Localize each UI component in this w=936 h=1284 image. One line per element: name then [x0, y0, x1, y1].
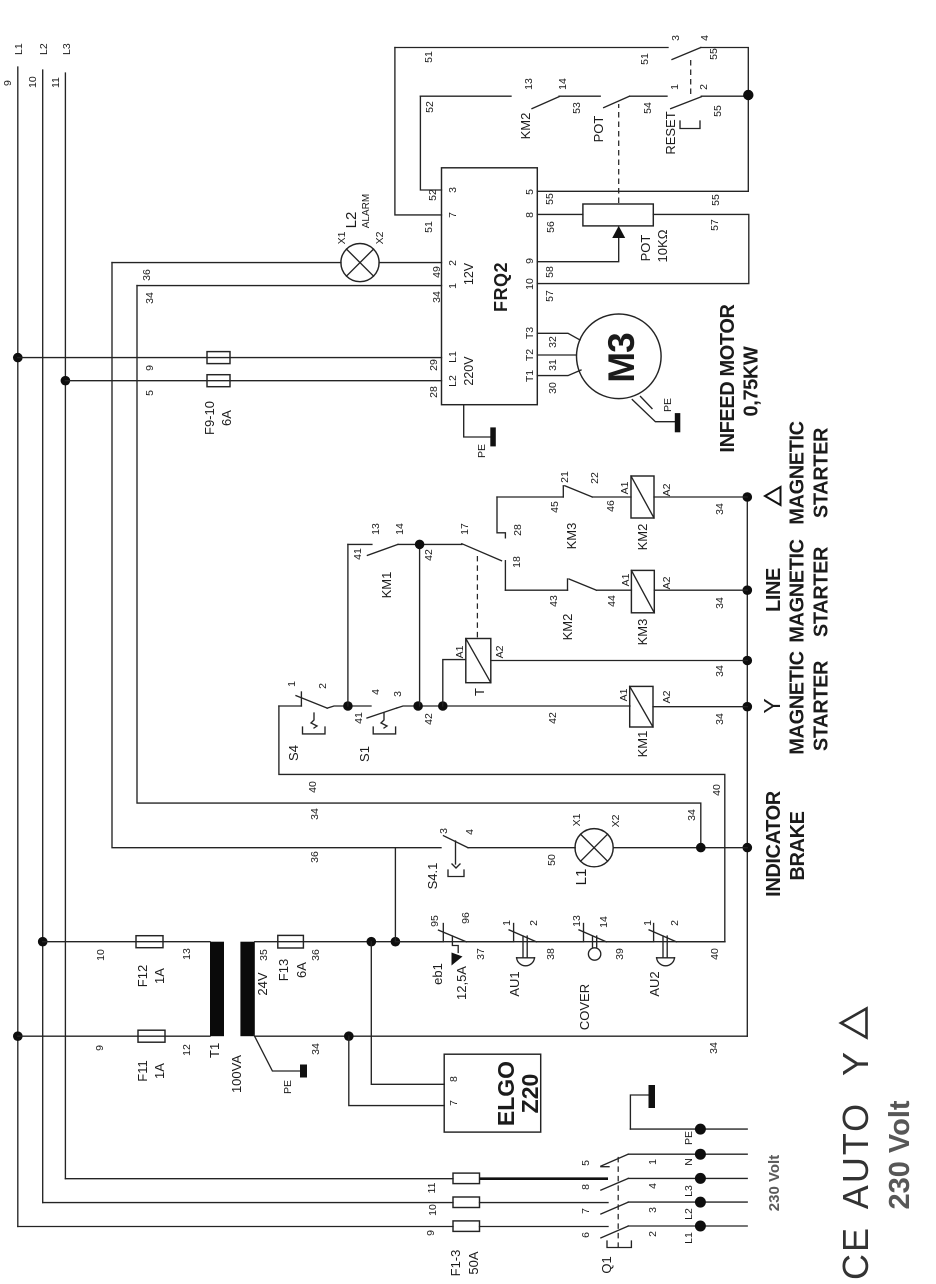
dashed link T coil to contact [476, 556, 478, 637]
svg-text:39: 39 [614, 948, 626, 960]
breaker Q1 pole L1 blade [601, 1226, 628, 1238]
motor M3 [577, 314, 662, 399]
svg-text:58: 58 [544, 266, 556, 278]
Q1 mechanical link (dashed) [617, 1155, 619, 1248]
svg-text:M3: M3 [601, 333, 642, 383]
svg-text:T: T [472, 688, 487, 696]
svg-text:30: 30 [547, 382, 559, 394]
svg-text:13: 13 [571, 915, 583, 927]
junction dot: L2 rail to F12 [38, 937, 48, 947]
svg-text:96: 96 [460, 912, 472, 924]
svg-text:8: 8 [524, 212, 536, 218]
branch 42 to T coil [443, 660, 466, 706]
svg-text:18: 18 [511, 556, 523, 568]
svg-text:KM3: KM3 [564, 523, 579, 550]
S1 actuator [381, 713, 387, 728]
svg-text:BRAKE: BRAKE [787, 811, 809, 880]
svg-text:T3: T3 [524, 327, 536, 339]
svg-text:MAGNETIC: MAGNETIC [787, 651, 809, 754]
svg-text:1: 1 [447, 283, 459, 289]
aux contact KM2 (3-4) [670, 35, 711, 60]
wire 10 drop to F12 [43, 941, 210, 943]
wire 40 return loop [279, 706, 725, 942]
fuse F11 [138, 1030, 165, 1042]
pushbutton AU1 (1-2) [501, 920, 557, 997]
svg-text:56: 56 [545, 221, 557, 233]
PE earth branch [630, 1095, 649, 1129]
svg-text:STARTER: STARTER [811, 546, 833, 637]
svg-text:A1: A1 [618, 688, 630, 701]
junction dot rail/KM2 rung [743, 492, 753, 502]
fuse F10 [207, 375, 230, 387]
wire L3 drop to Q1 [65, 1178, 453, 1180]
svg-text:POT: POT [638, 235, 653, 262]
svg-text:34: 34 [686, 809, 698, 821]
earth bar (FRQ2) [490, 427, 496, 446]
svg-text:A2: A2 [661, 483, 673, 496]
Q1 handle [607, 1241, 631, 1248]
svg-text:F11: F11 [135, 1060, 150, 1081]
RESET latch bracket [680, 121, 700, 129]
svg-text:0,75KW: 0,75KW [741, 346, 763, 416]
svg-text:COVER: COVER [577, 984, 592, 1030]
coil KM2 [619, 476, 673, 550]
svg-text:9: 9 [2, 80, 14, 86]
wire to ELGO pin 8 [371, 942, 444, 1085]
svg-text:ALARM: ALARM [361, 194, 372, 228]
svg-text:KM1: KM1 [635, 731, 650, 758]
wire 39 [606, 941, 653, 943]
svg-text:T2: T2 [524, 349, 536, 361]
svg-text:L2: L2 [343, 212, 360, 229]
svg-text:A1: A1 [454, 645, 466, 658]
transformer T1 primary bar [210, 942, 224, 1036]
svg-text:F1-3: F1-3 [448, 1250, 463, 1277]
wire KM2 coil to rail [654, 496, 747, 498]
svg-text:52: 52 [424, 101, 436, 113]
ELGO Z20 box [444, 1054, 541, 1132]
svg-text:34: 34 [144, 292, 156, 304]
svg-text:1A: 1A [152, 1063, 167, 1079]
svg-text:46: 46 [605, 500, 617, 512]
junction dot 42/KM1aux [415, 540, 425, 550]
wire PE terminal [630, 1128, 747, 1130]
svg-text:12: 12 [181, 1044, 193, 1056]
terminal dot N [695, 1149, 706, 1160]
svg-text:36: 36 [141, 269, 153, 281]
wire 46 [592, 496, 631, 498]
svg-text:55: 55 [712, 105, 724, 117]
wire 51 right side [395, 47, 668, 49]
wire Q1 out N [628, 1153, 747, 1155]
svg-text:31: 31 [547, 359, 559, 371]
svg-text:A2: A2 [494, 645, 506, 658]
switch COVER (13-14) [571, 915, 626, 1030]
svg-text:41: 41 [352, 548, 364, 560]
breaker Q1 pole L2 blade [601, 1202, 628, 1214]
svg-text:KM2: KM2 [560, 614, 575, 641]
svg-text:ELGO: ELGO [493, 1061, 519, 1126]
overload contact eb1 (95-96) [395, 912, 487, 1000]
svg-text:6A: 6A [219, 410, 234, 426]
aux contact KM2 (13-14) [518, 78, 569, 139]
svg-text:L1: L1 [683, 1232, 695, 1244]
wire 9 to FRQ2 L1 [18, 357, 442, 359]
svg-text:3: 3 [670, 35, 682, 41]
power rail L3 [50, 43, 73, 1179]
junction dot S4/KM1aux branch [343, 701, 353, 711]
coil KM3 [620, 570, 673, 645]
wire 5 to FRQ2 L2 [65, 380, 441, 382]
svg-text:T1: T1 [207, 1043, 222, 1058]
wire Q1 out L3 [628, 1177, 747, 1179]
svg-text:4: 4 [647, 1183, 659, 1189]
svg-text:12V: 12V [462, 262, 476, 285]
aux contact KM1 (13-14) [348, 523, 406, 598]
svg-text:28: 28 [512, 524, 524, 536]
svg-text:1: 1 [501, 920, 513, 926]
svg-text:12,5A: 12,5A [454, 966, 469, 1000]
svg-text:5: 5 [524, 189, 536, 195]
svg-text:A1: A1 [620, 573, 632, 586]
NC contact KM2 (43-44) [548, 579, 618, 640]
svg-text:11: 11 [50, 77, 62, 88]
svg-text:Y: Y [835, 1052, 876, 1076]
svg-text:eb1: eb1 [430, 963, 445, 985]
svg-text:28: 28 [428, 386, 440, 398]
svg-text:A2: A2 [661, 576, 673, 589]
S4.1 actuator bracket [448, 870, 464, 877]
wire KM1 coil to rail [653, 706, 747, 708]
svg-text:L2: L2 [447, 375, 459, 387]
wire 52 to pin 3 [420, 96, 441, 190]
wire 49 upper [112, 262, 341, 264]
svg-text:2: 2 [698, 84, 710, 90]
svg-text:57: 57 [709, 219, 721, 231]
branch 42 to T contact [419, 544, 421, 706]
wire 55 from pin 5 [537, 190, 748, 192]
svg-text:L1: L1 [573, 869, 590, 886]
wiper arrow [612, 226, 625, 238]
svg-text:230 Volt: 230 Volt [766, 1155, 783, 1211]
svg-text:S1: S1 [357, 746, 372, 762]
terminal dot L2 [695, 1197, 706, 1208]
wire 55 below RESET [701, 95, 748, 97]
svg-text:14: 14 [557, 78, 569, 90]
svg-text:13: 13 [181, 948, 193, 960]
wire L1 drop to Q1 [18, 1226, 453, 1228]
wire 34 to pin 1 [137, 285, 442, 287]
svg-text:S4: S4 [286, 745, 301, 761]
svg-text:9: 9 [524, 258, 536, 264]
svg-text:10: 10 [427, 1204, 439, 1216]
alarm lamp L2 (X1-X2) [336, 194, 386, 282]
wire L2 fuse to Q1 contact [480, 1202, 609, 1204]
junction dot indicator/34 [696, 843, 706, 853]
svg-text:36: 36 [310, 949, 322, 961]
fuse F13 [278, 935, 304, 948]
earth bar (T1 PE) [300, 1065, 307, 1078]
svg-text:55: 55 [710, 194, 722, 206]
svg-text:9: 9 [144, 365, 156, 371]
wire 55 right edge [701, 48, 749, 192]
svg-text:42: 42 [423, 713, 435, 725]
S4 actuator [311, 713, 317, 728]
wire lamp to rail [613, 847, 747, 849]
fuse F9 [207, 352, 230, 364]
svg-text:7: 7 [580, 1208, 592, 1214]
svg-text:52: 52 [427, 189, 439, 201]
svg-text:10KΩ: 10KΩ [655, 229, 670, 262]
svg-text:F9-10: F9-10 [202, 401, 217, 435]
svg-text:LINE: LINE [763, 568, 785, 612]
svg-text:24V: 24V [255, 972, 270, 995]
svg-text:95: 95 [429, 915, 441, 927]
wire Q1 out L2 [628, 1201, 747, 1203]
svg-text:10: 10 [524, 278, 536, 290]
terminal dot L1 [695, 1221, 706, 1232]
junction dot rail/KM3 rung [743, 585, 753, 595]
wire L2 drop to Q1 [43, 1202, 453, 1204]
fuse F12 [136, 936, 163, 948]
svg-text:CE: CE [835, 1226, 876, 1280]
wire 44 [597, 589, 632, 591]
svg-text:AU2: AU2 [647, 971, 662, 996]
svg-text:21: 21 [559, 471, 571, 483]
wire 42 to T contact [398, 543, 462, 545]
svg-text:T1: T1 [524, 370, 536, 382]
switch S4.1 (3-4) [395, 828, 476, 889]
svg-text:10: 10 [95, 949, 107, 961]
wire Q1 out L1 [628, 1225, 747, 1227]
svg-text:L3: L3 [61, 43, 73, 55]
svg-text:4: 4 [699, 35, 711, 41]
PE earth FRQ2 [464, 405, 491, 437]
svg-text:Z20: Z20 [517, 1074, 543, 1114]
svg-text:3: 3 [438, 828, 450, 834]
pushbutton S1 (3-4) [357, 689, 404, 762]
svg-text:35: 35 [258, 949, 270, 961]
svg-text:1: 1 [286, 681, 298, 687]
svg-text:L1: L1 [447, 351, 459, 363]
svg-text:AU1: AU1 [507, 971, 522, 996]
wire 36 long run [112, 263, 395, 848]
svg-text:2: 2 [317, 683, 329, 689]
svg-text:17: 17 [459, 523, 471, 535]
wire to ELGO pin 7 [349, 1036, 444, 1105]
svg-text:X1: X1 [336, 231, 348, 244]
LINE rung wire [505, 589, 567, 591]
NC contact KM3 (21-22) [559, 471, 617, 549]
terminal dot PE [695, 1124, 706, 1135]
svg-text:44: 44 [606, 595, 618, 607]
svg-text:2: 2 [647, 1231, 659, 1237]
svg-text:L1: L1 [13, 43, 25, 55]
svg-text:KM2: KM2 [635, 524, 650, 551]
junction dot rail/T coil [743, 656, 753, 666]
svg-text:14: 14 [598, 916, 610, 928]
junction dot: wire 36 to indicator branch [391, 937, 401, 947]
fuse F2 (L2) [453, 1197, 480, 1208]
svg-text:Q1: Q1 [599, 1256, 614, 1273]
emergency stop S4 (1-2) [279, 681, 329, 761]
svg-text:6: 6 [580, 1232, 592, 1238]
motor wire 30 [537, 370, 581, 376]
wire 34 secondary left column [255, 1035, 748, 1037]
breaker Q1 pole N blade [601, 1154, 628, 1166]
wire 49 lower [379, 262, 441, 264]
svg-text:40: 40 [709, 948, 721, 960]
svg-text:8: 8 [580, 1184, 592, 1190]
svg-text:PE: PE [476, 444, 488, 458]
svg-text:4: 4 [464, 829, 476, 835]
svg-text:1A: 1A [152, 968, 167, 984]
svg-text:FRQ2: FRQ2 [491, 262, 511, 312]
svg-text:9: 9 [425, 1230, 437, 1236]
svg-text:L2: L2 [38, 43, 50, 55]
svg-text:11: 11 [426, 1182, 438, 1193]
wire 53 [559, 95, 600, 97]
svg-text:INFEED MOTOR: INFEED MOTOR [717, 303, 739, 452]
svg-text:7: 7 [447, 212, 459, 218]
svg-text:13: 13 [523, 78, 535, 90]
wire 51 to pin 7 [395, 48, 442, 215]
svg-text:3: 3 [647, 1207, 659, 1213]
svg-text:55: 55 [708, 48, 720, 60]
svg-text:54: 54 [642, 102, 654, 114]
svg-text:8: 8 [448, 1076, 460, 1082]
junction dot 42 a [413, 701, 423, 711]
svg-text:1: 1 [669, 84, 681, 90]
svg-text:36: 36 [309, 851, 321, 863]
svg-text:STARTER: STARTER [811, 660, 833, 751]
svg-text:34: 34 [714, 713, 726, 725]
svg-text:13: 13 [370, 523, 382, 535]
svg-text:10: 10 [27, 76, 39, 88]
svg-text:3: 3 [392, 691, 404, 697]
transformer PE tap [254, 1035, 300, 1071]
svg-text:57: 57 [544, 290, 556, 302]
switch RESET (1-2) [663, 84, 710, 155]
wire 50 [468, 847, 575, 849]
motor wire 32 [537, 333, 580, 340]
junction dot rail L1 / wire 9 [13, 353, 23, 363]
svg-text:34: 34 [309, 808, 321, 820]
svg-text:22: 22 [589, 472, 601, 484]
svg-text:PE: PE [662, 398, 674, 412]
svg-text:37: 37 [475, 948, 487, 960]
PE earth M3 [632, 400, 675, 422]
svg-text:AUTO: AUTO [835, 1102, 876, 1209]
wire 41 [327, 706, 371, 708]
svg-text:X1: X1 [571, 813, 583, 826]
svg-text:34: 34 [708, 1042, 720, 1054]
junction dot rail/indicator [743, 843, 753, 853]
earth bar (M3) [675, 413, 681, 432]
power rail L1 [2, 43, 25, 1226]
svg-text:100VA: 100VA [229, 1055, 244, 1093]
svg-text:7: 7 [448, 1100, 460, 1106]
svg-text:PE: PE [683, 1131, 695, 1145]
svg-text:L2: L2 [683, 1208, 695, 1220]
breaker Q1 pole L3 blade [601, 1178, 628, 1190]
svg-text:MAGNETIC: MAGNETIC [787, 421, 809, 524]
fuse F1 (L1) [453, 1221, 480, 1232]
svg-text:KM2: KM2 [518, 113, 533, 140]
svg-text:51: 51 [423, 51, 435, 63]
wire T coil to rail [491, 660, 748, 662]
wire 38 [536, 941, 583, 943]
delta symbol [765, 487, 781, 505]
svg-text:1: 1 [647, 1159, 659, 1165]
svg-text:51: 51 [423, 221, 435, 233]
svg-text:3: 3 [447, 187, 459, 193]
wire 52 column [420, 95, 511, 97]
frequency inverter FRQ2 box [442, 168, 538, 405]
earth bar (incoming PE) [649, 1085, 656, 1108]
junction dot rail L3 / wire 5 [61, 376, 71, 386]
svg-text:41: 41 [353, 712, 365, 724]
svg-text:50A: 50A [466, 1251, 481, 1274]
svg-text:40: 40 [307, 781, 319, 793]
svg-text:220V: 220V [462, 356, 476, 386]
svg-text:34: 34 [714, 503, 726, 515]
svg-text:5: 5 [144, 390, 156, 396]
indicator lamp L1 [571, 813, 622, 885]
svg-text:9: 9 [94, 1045, 106, 1051]
svg-text:Y: Y [759, 698, 785, 713]
svg-text:1: 1 [642, 920, 654, 926]
PE tick M3 [641, 397, 653, 409]
timer changeover contact T (17-18-28) [459, 497, 524, 590]
svg-text:2: 2 [447, 260, 459, 266]
svg-text:51: 51 [639, 53, 651, 65]
wire 24V secondary right column [255, 941, 725, 943]
wire L3 fuse to Q1 contact (thick) [480, 1177, 609, 1180]
svg-text:A1: A1 [619, 481, 631, 494]
svg-text:55: 55 [544, 193, 556, 205]
wire 37 [466, 941, 513, 943]
junction dot: wire 34 to ELGO 7 [344, 1031, 354, 1041]
wire L1 fuse to Q1 contact [480, 1226, 609, 1228]
svg-text:43: 43 [548, 595, 560, 607]
wire 56 [537, 213, 583, 215]
svg-text:38: 38 [545, 948, 557, 960]
svg-text:34: 34 [714, 597, 726, 609]
svg-text:29: 29 [428, 359, 440, 371]
svg-text:45: 45 [549, 501, 561, 513]
eb1 trip arrow [452, 953, 463, 966]
svg-text:A2: A2 [661, 690, 673, 703]
junction dot 42 b [438, 701, 448, 711]
common return rail 34 [746, 497, 748, 1036]
svg-text:X2: X2 [374, 231, 386, 244]
transformer T1 secondary bar [240, 942, 254, 1036]
svg-text:42: 42 [423, 549, 435, 561]
wire KM3 coil to rail [654, 589, 747, 591]
wire 34 long run [137, 286, 701, 848]
delta symbol (title) [841, 1009, 867, 1038]
COVER actuator roller [588, 948, 600, 960]
svg-text:42: 42 [547, 712, 559, 724]
breaker Q1 pole N stub [601, 1166, 609, 1168]
svg-text:MAGNETIC: MAGNETIC [787, 539, 809, 642]
terminal dot L3 [695, 1173, 706, 1184]
wire 54 [630, 95, 667, 97]
coil KM1 [618, 686, 673, 757]
wire 42 [397, 706, 630, 708]
fuse F3 (L3) [453, 1173, 480, 1184]
